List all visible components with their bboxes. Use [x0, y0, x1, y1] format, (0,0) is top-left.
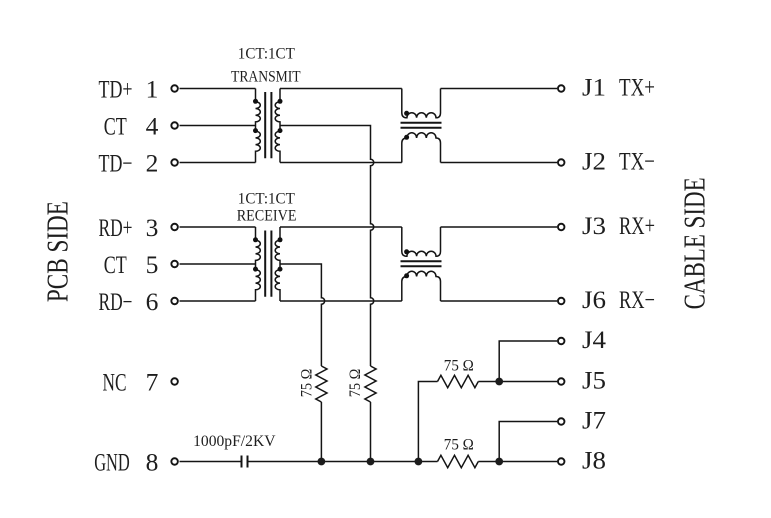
resistor R4 75ohm horizontal [438, 455, 479, 467]
pin 2 terminal [171, 159, 178, 166]
wire T2 secondary bottom to choke L2 [280, 300, 402, 302]
node RD+ pin 3 label [99, 213, 159, 242]
wire T2 secondary top to choke L2 [280, 226, 402, 228]
svg-text:75 Ω: 75 Ω [347, 369, 364, 398]
pin 5 terminal [171, 261, 178, 268]
svg-text:1CT:1CT: 1CT:1CT [238, 190, 295, 207]
node J6 RX- label [582, 285, 655, 314]
wire R3 to J5 [478, 381, 557, 383]
terminal J5 [558, 378, 565, 385]
svg-text:J6: J6 [582, 285, 606, 314]
svg-text:RD−: RD− [99, 287, 133, 316]
node CT pin 5 label [104, 250, 159, 279]
resistor R1 75ohm vertical [316, 366, 327, 402]
svg-text:J1: J1 [582, 73, 606, 102]
junction dot R3 branch GND [415, 458, 423, 466]
wire pin3 to T2 [180, 226, 256, 228]
pin 6 terminal [171, 298, 178, 305]
transformer T1 primary winding [256, 89, 261, 163]
transformer T1 primary phase dot bottom [253, 128, 258, 133]
svg-text:75 Ω: 75 Ω [444, 436, 474, 453]
resistor R2 75ohm vertical [365, 366, 376, 402]
svg-text:RD+: RD+ [99, 213, 133, 242]
pin 1 terminal [171, 85, 178, 92]
wire choke L2 to J3 [441, 226, 558, 228]
pin 4 terminal [171, 122, 178, 129]
node RD- pin 6 label [99, 287, 159, 316]
svg-text:TX+: TX+ [619, 73, 655, 102]
transformer T2 primary winding [256, 227, 261, 301]
svg-text:TD−: TD− [99, 149, 133, 178]
choke L1 core [401, 123, 442, 128]
svg-text:3: 3 [146, 213, 159, 242]
wire pin8 to C1 [180, 461, 241, 463]
svg-text:J5: J5 [582, 366, 606, 395]
choke L2 bottom phase dot [404, 273, 409, 278]
wire choke L2 to J6 [441, 300, 558, 302]
choke L1 top winding [402, 89, 441, 118]
junction dot R1 GND [318, 458, 326, 466]
terminal J7 [558, 418, 565, 425]
svg-text:TRANSMIT: TRANSMIT [231, 68, 301, 85]
svg-text:7: 7 [146, 368, 159, 397]
svg-text:PCB SIDE: PCB SIDE [40, 201, 75, 302]
terminal J4 [558, 338, 565, 345]
node J3 RX+ label [582, 211, 655, 240]
wire C1 to R4 on GND bus [249, 461, 438, 463]
choke L1 top phase dot [404, 111, 409, 116]
junction dot R2 GND [367, 458, 375, 466]
node J2 TX- label [582, 147, 655, 176]
svg-text:J4: J4 [582, 325, 606, 354]
svg-text:RX+: RX+ [619, 211, 655, 240]
wire choke L1 to J2 [441, 162, 558, 164]
svg-text:NC: NC [103, 368, 127, 397]
wire R2 to GND bus [370, 402, 372, 462]
svg-text:J2: J2 [582, 147, 606, 176]
svg-text:75 Ω: 75 Ω [444, 358, 474, 375]
wire J8 node up to J7 [499, 422, 557, 462]
svg-text:75 Ω: 75 Ω [298, 369, 315, 398]
svg-text:J7: J7 [582, 406, 606, 435]
resistor R3 75ohm horizontal [438, 375, 479, 387]
choke L1 bottom phase dot [404, 135, 409, 140]
svg-text:RECEIVE: RECEIVE [237, 208, 297, 225]
transformer T1 secondary phase dot top [278, 99, 283, 104]
transformer T1 secondary phase dot bottom [278, 128, 283, 133]
wire T2 center tap down with hop [280, 264, 325, 366]
junction dot J8 branch [495, 458, 503, 466]
wire R4 to J8 [478, 461, 557, 463]
transformer T2 secondary winding [275, 227, 280, 301]
node TD- pin 2 label [99, 149, 159, 178]
transformer T2 secondary phase dot top [278, 237, 283, 242]
wire T1 center tap down with hops [280, 126, 374, 367]
terminal J1 [558, 85, 565, 92]
wire T1 secondary top to choke L1 [280, 88, 402, 90]
wire pin5 to T2 [180, 263, 256, 265]
node CT pin 4 label [104, 112, 159, 141]
choke L2 core [401, 261, 442, 266]
svg-text:TD+: TD+ [99, 75, 133, 104]
choke L2 top phase dot [404, 249, 409, 254]
wire pin1 to T1 [180, 88, 256, 90]
transformer T1 primary phase dot top [253, 99, 258, 104]
wire pin4 to T1 [180, 125, 256, 127]
choke L2 bottom winding [402, 271, 441, 301]
svg-text:TX−: TX− [619, 147, 655, 176]
transformer T1 core [265, 92, 271, 158]
junction dot J5 branch [495, 378, 503, 386]
svg-text:CT: CT [104, 250, 127, 279]
wire pin6 to T2 [180, 300, 256, 302]
pin 8 terminal GND [171, 458, 178, 465]
svg-text:1CT:1CT: 1CT:1CT [238, 46, 295, 63]
transformer T2 secondary phase dot bottom [278, 267, 283, 272]
choke L1 bottom winding [402, 133, 441, 163]
svg-text:J3: J3 [582, 211, 606, 240]
svg-text:CT: CT [104, 112, 127, 141]
terminal J8 [558, 458, 565, 465]
svg-text:1000pF/2KV: 1000pF/2KV [193, 433, 276, 450]
svg-text:CABLE SIDE: CABLE SIDE [677, 177, 712, 309]
node J1 TX+ label [582, 73, 655, 102]
wire J5 node up to J4 [499, 341, 557, 382]
terminal J2 [558, 159, 565, 166]
pin 7 terminal NC [171, 378, 178, 385]
svg-text:1: 1 [146, 75, 159, 104]
transformer T2 core [265, 231, 271, 297]
svg-text:6: 6 [146, 287, 159, 316]
terminal J3 [558, 224, 565, 231]
transformer T2 primary phase dot top [253, 237, 258, 242]
svg-text:4: 4 [146, 112, 159, 141]
pin 3 terminal [171, 224, 178, 231]
svg-text:J8: J8 [582, 446, 606, 475]
transformer T2 primary phase dot bottom [253, 267, 258, 272]
terminal J6 [558, 298, 565, 305]
wire choke L1 to J1 [441, 88, 558, 90]
choke L2 top winding [402, 227, 441, 256]
node NC pin 7 label [103, 368, 159, 397]
transformer T1 secondary winding [275, 89, 280, 163]
node GND pin 8 label [94, 448, 158, 477]
wire T1 secondary bottom to choke L1 [280, 162, 402, 164]
wire GND bus up to J5 row [418, 382, 437, 462]
capacitor C1 plates [242, 456, 248, 468]
node TD+ pin 1 label [99, 75, 159, 104]
svg-text:GND: GND [94, 448, 130, 477]
svg-text:RX−: RX− [619, 285, 655, 314]
svg-text:2: 2 [146, 149, 159, 178]
wire R1 to GND bus [320, 402, 322, 462]
wire pin2 to T1 [180, 162, 256, 164]
svg-text:8: 8 [146, 448, 159, 477]
svg-text:5: 5 [146, 250, 159, 279]
